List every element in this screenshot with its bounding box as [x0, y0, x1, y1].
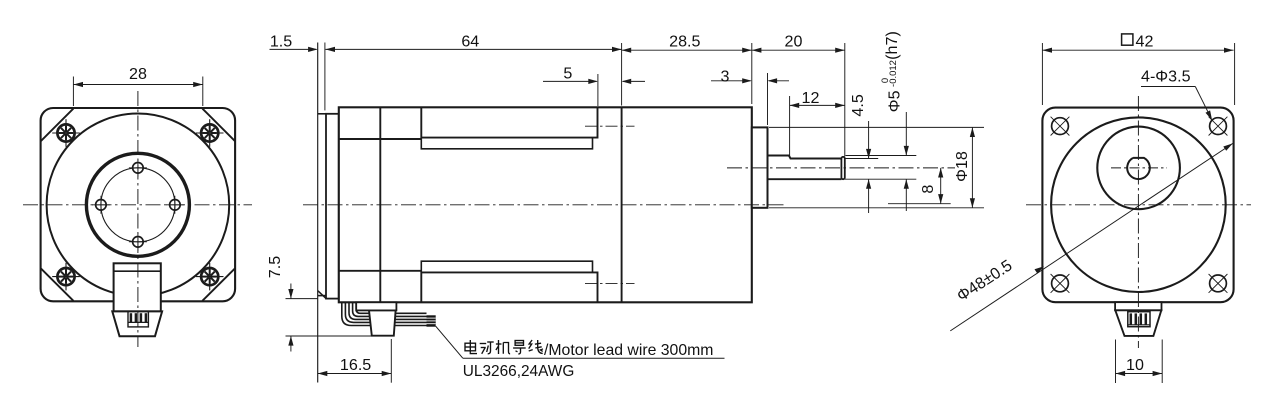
- svg-text:Φ5: Φ5: [886, 90, 904, 112]
- right view flange square: [1042, 108, 1233, 303]
- body internal vertical edge x=380: [379, 107, 381, 302]
- motor lead wires bundle: [356, 302, 426, 313]
- svg-text:3: 3: [721, 68, 730, 86]
- rear cover top edge: [318, 113, 326, 115]
- left view bolt circle: [101, 168, 175, 242]
- svg-text:12: 12: [802, 89, 820, 107]
- right view corner holes with diagonal marks: [1052, 118, 1069, 135]
- svg-text:20: 20: [785, 32, 803, 50]
- svg-text:4.5: 4.5: [849, 94, 867, 116]
- shaft axis centerline: [727, 167, 955, 169]
- left view four bolt holes: [133, 163, 144, 174]
- left view corner screws: [57, 124, 74, 141]
- gearbox/motor joint line x=621.6: [621, 107, 623, 302]
- left view connector body: [114, 263, 161, 311]
- svg-text:1.5: 1.5: [270, 32, 292, 50]
- svg-text:4-Φ3.5: 4-Φ3.5: [1141, 67, 1191, 85]
- boss reference lines: [769, 126, 984, 128]
- left view boss circle (thick ring): [86, 153, 189, 256]
- right view pin block: [1128, 312, 1150, 327]
- left view connector trapezoid: [112, 311, 162, 336]
- motor screw centerlines: [585, 125, 635, 127]
- right view connector cap: [1115, 302, 1161, 310]
- left view connector pin block: [128, 311, 148, 327]
- left view horizontal centerline: [23, 204, 252, 206]
- flange plate: [326, 114, 339, 299]
- svg-text:42: 42: [1136, 32, 1154, 50]
- middle view main axis centerline: [303, 204, 787, 206]
- svg-text:Φ18: Φ18: [953, 151, 971, 182]
- extension lines top dims: [621, 43, 623, 106]
- wire bundle end (hatched): [427, 315, 436, 326]
- svg-text:(h7): (h7): [883, 31, 901, 60]
- shaft end cap: [841, 157, 844, 179]
- left view vertical centerline: [137, 91, 139, 347]
- svg-text:7.5: 7.5: [266, 256, 284, 278]
- output boss cylinder: [752, 127, 768, 207]
- right view gear boss circle: [1097, 127, 1180, 210]
- top raised band: [421, 107, 597, 137]
- right view horizontal centerline: [1026, 204, 1251, 206]
- svg-text:5: 5: [563, 65, 572, 83]
- gearbox/motor body outline: [339, 107, 752, 302]
- middle view connector cap: [356, 302, 396, 310]
- extension line x=324.9 for 1.5 dim: [324, 43, 326, 111]
- rear cover bottom chamfer: [318, 291, 326, 299]
- output shaft outline with flat: [768, 156, 842, 159]
- bottom raised band: [421, 272, 597, 302]
- text: motor lead wire label line1: [465, 340, 477, 354]
- svg-text:10: 10: [1126, 356, 1144, 374]
- wire leader line: [436, 326, 463, 358]
- rear cover edge / extension line x=317.7: [317, 43, 319, 383]
- right view connector trapezoid: [1115, 310, 1161, 336]
- dimension 28 (left view top): [72, 77, 74, 107]
- right view shaft circle centerlines: [1111, 167, 1167, 169]
- flange step horizontal edges: [339, 138, 422, 140]
- left view big circle (motor body): [47, 114, 230, 297]
- right view shaft circle with flat: [1127, 158, 1150, 179]
- svg-text:8: 8: [919, 185, 937, 194]
- rear cover bottom edge: [318, 295, 326, 297]
- dimension square-42: [1122, 34, 1133, 45]
- flange corner chamfer lines: [41, 109, 73, 141]
- svg-text:28.5: 28.5: [669, 32, 700, 50]
- shaft reference lines: [846, 155, 917, 157]
- right view vertical centerline: [1137, 96, 1139, 348]
- middle view connector trapezoid: [369, 310, 396, 335]
- svg-text:28: 28: [129, 65, 147, 83]
- svg-text:16.5: 16.5: [340, 356, 371, 374]
- svg-text:-0.012: -0.012: [888, 60, 899, 87]
- svg-text:64: 64: [461, 32, 479, 50]
- svg-text:UL3266,24AWG: UL3266,24AWG: [463, 363, 575, 380]
- right view big circle: [1051, 117, 1226, 292]
- svg-text:/Motor lead wire 300mm: /Motor lead wire 300mm: [544, 342, 713, 359]
- left view flange square outline: [41, 108, 236, 301]
